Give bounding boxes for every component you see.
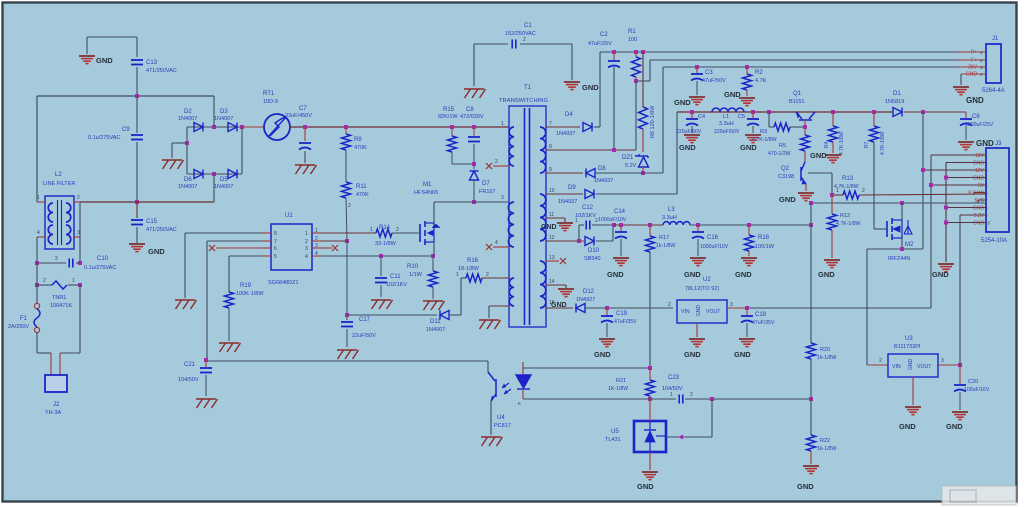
svg-text:U3: U3: [905, 336, 913, 342]
svg-text:K: K: [518, 401, 521, 406]
resistor R14: [376, 229, 392, 237]
svg-text:6: 6: [274, 246, 277, 252]
svg-text:1K-1/8W: 1K-1/8W: [608, 386, 628, 392]
transistor Q1 B1151: [796, 112, 815, 120]
svg-text:C3: C3: [705, 70, 713, 76]
svg-text:L2: L2: [55, 172, 62, 178]
connector J3: [986, 148, 1009, 232]
svg-text:5.2V: 5.2V: [625, 163, 637, 169]
wire R7 to M2 gate: [873, 142, 875, 229]
svg-text:PC817: PC817: [494, 423, 511, 429]
svg-text:2: 2: [690, 392, 693, 398]
svg-text:470-1/2W: 470-1/2W: [768, 151, 791, 157]
svg-text:102/1KV: 102/1KV: [575, 213, 596, 219]
wire U1 pin2: [322, 240, 348, 242]
svg-text:1: 1: [72, 278, 75, 284]
ground below C4: [684, 135, 700, 143]
junction C10 left: [35, 261, 39, 265]
wire R2 stub: [746, 67, 748, 74]
svg-text:TNR1: TNR1: [52, 295, 66, 301]
junction bridge left mid: [185, 141, 189, 145]
wire 3.3V riser: [959, 215, 961, 365]
svg-text:C9: C9: [122, 127, 130, 133]
junction R6 top: [641, 50, 645, 54]
svg-text:1: 1: [370, 227, 373, 233]
winding T1 primary lower: [508, 202, 514, 247]
svg-text:1000uF/10V: 1000uF/10V: [700, 244, 729, 250]
wire R8 to R11: [345, 150, 347, 182]
svg-text:4.7K: 4.7K: [755, 78, 767, 84]
svg-text:D2: D2: [184, 109, 192, 115]
svg-text:2: 2: [305, 239, 308, 245]
svg-text:5264-4A: 5264-4A: [982, 88, 1005, 94]
diode D2: [194, 123, 203, 132]
wire U1 pin4 CS line: [322, 255, 433, 257]
junction R2 tap: [745, 65, 749, 69]
wire C20 drop: [959, 365, 961, 384]
svg-text:J2: J2: [53, 402, 60, 408]
svg-text:GND: GND: [674, 98, 691, 107]
wire L2 pin2 stub: [74, 201, 80, 203]
junction C14 tap: [619, 223, 623, 227]
wire R6 to DZ1: [642, 129, 644, 152]
svg-text:1N4007: 1N4007: [178, 116, 197, 122]
junction C8 tap: [472, 125, 476, 129]
wire to C13: [136, 37, 138, 57]
inductor L3: [663, 222, 690, 225]
svg-text:1: 1: [670, 392, 673, 398]
wire J3 pin6 jog: [973, 193, 975, 196]
svg-text:B111733PI: B111733PI: [894, 344, 921, 350]
wire R21 top: [649, 368, 651, 380]
wire C6 to gnd: [965, 126, 967, 140]
svg-text:2: 2: [668, 302, 671, 308]
wire GND jog top-left: [87, 36, 137, 38]
svg-text:GND: GND: [899, 422, 916, 431]
svg-text:DZ1: DZ1: [622, 155, 634, 161]
wire D7 to drain line: [473, 180, 475, 202]
wire R20 to FB node: [810, 359, 812, 399]
svg-text:GND: GND: [724, 90, 741, 99]
no-connect T1 pin4: [486, 244, 492, 250]
svg-text:100: 100: [628, 37, 637, 43]
junction v931 pin5: [929, 183, 933, 187]
svg-text:1: 1: [575, 218, 578, 224]
wire bridge top: [187, 126, 242, 128]
wire to D7: [473, 164, 475, 169]
svg-text:U5: U5: [611, 429, 619, 435]
svg-text:100/1W: 100/1W: [755, 244, 775, 250]
wire FB column upper: [810, 203, 812, 343]
wire T1 pin8 line: [546, 149, 636, 151]
resistor R5: [801, 135, 810, 151]
svg-text:C20: C20: [968, 379, 978, 385]
junction D11 node: [345, 313, 349, 317]
junction C9/C15 node: [135, 200, 139, 204]
junction TL431 ref: [710, 397, 714, 401]
svg-text:10: 10: [985, 221, 991, 226]
wire R16 to T1 aux: [482, 277, 509, 279]
wire C6 corner: [965, 112, 967, 118]
capacitor C8: [468, 137, 480, 142]
junction gnd col a: [944, 176, 948, 180]
connector J2: [45, 375, 67, 392]
junction R8 tap: [344, 125, 348, 129]
svg-text:GND: GND: [973, 221, 985, 227]
svg-text:D9: D9: [568, 185, 576, 191]
svg-text:220uF/50V: 220uF/50V: [714, 129, 740, 135]
junction R17/R21/LED: [648, 366, 652, 370]
capacitor C15: [131, 220, 143, 225]
wire C4 to gnd: [691, 126, 693, 133]
winding T1 secondary 3: [540, 261, 546, 308]
wire bridge to RT1: [242, 126, 263, 128]
diode D12: [576, 304, 585, 313]
wire D10 out: [596, 240, 613, 242]
wire to R15: [451, 127, 453, 136]
ground below R12: [824, 260, 840, 268]
svg-text:1N4927: 1N4927: [576, 297, 595, 303]
svg-text:-26V: -26V: [966, 65, 977, 71]
wire C18 stub: [746, 308, 748, 315]
wire C21 stub: [205, 360, 207, 367]
svg-text:2: 2: [43, 278, 46, 284]
svg-text:GND: GND: [582, 83, 599, 92]
wire R18 stub: [748, 225, 750, 235]
earth ground opto: [481, 437, 503, 446]
svg-text:10: 10: [549, 188, 555, 194]
ground below C15: [129, 244, 145, 252]
svg-text:GND: GND: [696, 305, 702, 317]
svg-text:D4: D4: [565, 112, 573, 118]
pin 4 U1 right: [312, 255, 322, 257]
ground below C18: [739, 339, 755, 347]
svg-text:220uF/50V: 220uF/50V: [676, 129, 702, 135]
ground T1 pin11: [557, 223, 573, 231]
connector J1: [986, 44, 1001, 83]
wire R15 down: [451, 152, 453, 164]
svg-text:GND: GND: [96, 56, 113, 65]
svg-text:C5: C5: [738, 114, 745, 120]
IC U2 78L12: [677, 300, 727, 323]
svg-text:SB540: SB540: [584, 256, 601, 262]
svg-text:1: 1: [836, 188, 839, 194]
svg-text:GND: GND: [684, 350, 701, 359]
svg-text:GND: GND: [541, 224, 557, 231]
ground J3 gnd column: [938, 264, 954, 272]
svg-text:GND: GND: [148, 247, 165, 256]
varistor TNR1: [52, 281, 67, 289]
transformer T1: [509, 106, 546, 327]
wire R19 to earth: [228, 308, 230, 341]
svg-text:VIN: VIN: [681, 309, 690, 315]
earth ground below C11: [371, 300, 393, 309]
svg-text:D5: D5: [220, 177, 228, 183]
svg-text:GND: GND: [810, 151, 827, 160]
svg-text:3: 3: [315, 243, 318, 249]
svg-text:R10: R10: [407, 264, 419, 270]
junction R15 tap: [450, 125, 454, 129]
junction R17 tap: [648, 223, 652, 227]
svg-text:470K: 470K: [356, 192, 369, 198]
svg-text:4: 4: [305, 254, 308, 260]
earth ground below R19: [219, 343, 241, 352]
pin 2 U1 right: [312, 240, 322, 242]
ground below C14: [613, 258, 629, 266]
svg-text:U1: U1: [285, 213, 293, 219]
diode D7: [470, 171, 479, 180]
junction C18 tap: [745, 306, 749, 310]
svg-text:GND: GND: [684, 270, 701, 279]
svg-text:C21: C21: [184, 362, 196, 368]
junction C21 / FB line: [204, 358, 208, 362]
junction C10 right: [78, 261, 82, 265]
wire U3 out: [938, 364, 960, 366]
earth ground left of C1: [464, 89, 486, 98]
wire D11 line: [348, 314, 437, 316]
svg-text:HFS4N65: HFS4N65: [414, 190, 438, 196]
capacitor C16: [692, 232, 704, 239]
junction sense top: [809, 201, 813, 205]
wire to R8: [345, 127, 347, 134]
wire C13 to bus: [136, 67, 138, 96]
wire D10 segment: [579, 240, 584, 242]
svg-text:Q1: Q1: [793, 91, 802, 97]
svg-text:2: 2: [879, 358, 882, 364]
wire T1 pin7 to D4: [546, 126, 580, 128]
svg-text:C2: C2: [600, 32, 608, 38]
svg-text:3.3uH: 3.3uH: [719, 121, 734, 127]
svg-text:IRFZ44N: IRFZ44N: [888, 256, 910, 262]
diode D10: [585, 237, 594, 246]
wire to C11: [380, 256, 382, 276]
svg-text:GND: GND: [973, 206, 985, 212]
junction R18 tap: [747, 223, 751, 227]
svg-text:C7: C7: [299, 106, 307, 112]
diode D9: [585, 190, 594, 199]
svg-text:3: 3: [501, 195, 504, 201]
wire U1 pin1 to R14: [322, 232, 376, 234]
svg-text:C3198: C3198: [778, 174, 794, 180]
svg-text:M2: M2: [905, 242, 914, 248]
wire C3 stub: [696, 67, 698, 73]
svg-text:47uF/35V: 47uF/35V: [752, 320, 775, 326]
watermark box: [942, 486, 1016, 505]
wire 12V standby line: [747, 307, 931, 309]
wire C3 to gnd: [696, 81, 698, 95]
svg-text:C18: C18: [755, 312, 767, 318]
svg-text:R6 120-1/8W: R6 120-1/8W: [650, 105, 656, 138]
no-connect U1 pin3: [332, 245, 338, 251]
wire J3 pin2: [946, 162, 986, 164]
wire T1 pin10 to D9: [546, 193, 583, 195]
capacitor C14: [615, 232, 627, 239]
svg-text:2: 2: [348, 203, 351, 209]
svg-text:2: 2: [862, 188, 865, 194]
IC U3 B111733PI: [888, 354, 938, 377]
svg-text:F+: F+: [971, 58, 977, 64]
svg-text:4.7K-1/8W: 4.7K-1/8W: [880, 131, 886, 155]
junction R13 / R12: [830, 193, 834, 197]
inductor L1: [712, 108, 744, 112]
junction C3 tap: [695, 65, 699, 69]
svg-text:1000uF/10V: 1000uF/10V: [598, 217, 627, 223]
wire C16 stub: [697, 225, 699, 231]
winding T1 aux: [509, 278, 514, 306]
wire R11 down: [346, 198, 347, 241]
svg-text:R16: R16: [467, 258, 479, 264]
capacitor C12: [586, 221, 590, 230]
capacitor C3: [691, 74, 703, 81]
earth ground below R10: [423, 301, 445, 310]
junction 5V sense: [809, 223, 813, 227]
wire D9 to riser: [596, 193, 677, 195]
wire J3 pin1: [931, 154, 986, 156]
wire opto emitter to earth: [490, 401, 492, 435]
svg-text:47uF/35V: 47uF/35V: [614, 319, 637, 325]
svg-text:R15: R15: [443, 107, 455, 113]
svg-text:1k-1/8W: 1k-1/8W: [656, 243, 675, 249]
svg-text:GND: GND: [740, 143, 757, 152]
svg-text:1N4007: 1N4007: [426, 327, 445, 333]
svg-text:R21: R21: [616, 378, 626, 384]
pin 7 U1 left: [262, 240, 271, 242]
LED U4 side: [516, 375, 531, 389]
wire M2 source line: [867, 248, 923, 250]
ground Q2 emitter: [798, 193, 814, 201]
ground below C16: [690, 258, 706, 266]
no-connect U1 pin6: [209, 245, 215, 251]
svg-text:C8: C8: [466, 107, 474, 113]
no-connect T1 pin2: [486, 163, 492, 169]
ground below C5: [745, 135, 761, 143]
wire T1 pin13 stub: [546, 260, 559, 262]
wire to R10: [432, 256, 434, 271]
svg-text:R12: R12: [840, 213, 850, 219]
svg-text:GND: GND: [973, 161, 985, 167]
wire M2 source: [901, 238, 903, 249]
svg-text:R20: R20: [820, 347, 830, 353]
wire divider to C17: [346, 241, 348, 315]
svg-text:D7: D7: [482, 181, 490, 187]
svg-text:4.7K-1/8W: 4.7K-1/8W: [836, 221, 861, 227]
junction C12 riser: [577, 239, 581, 243]
svg-text:47uF/25V: 47uF/25V: [588, 41, 612, 47]
svg-text:R5: R5: [779, 143, 786, 149]
wire R12 to gnd: [831, 230, 833, 258]
svg-text:D8: D8: [598, 166, 606, 172]
wire R3 riser: [768, 112, 770, 127]
zener DZ1: [635, 154, 649, 167]
winding T1 primary upper: [509, 127, 514, 166]
ground T1 pin14: [558, 289, 574, 297]
svg-text:7: 7: [549, 121, 552, 127]
transistor Q2 C3198: [801, 162, 806, 184]
fuse F1: [34, 303, 39, 308]
svg-text:GND: GND: [946, 422, 963, 431]
capacitor C4: [686, 119, 698, 126]
svg-text:R1: R1: [628, 29, 636, 35]
wire U1 pin7 net: [207, 240, 262, 242]
junction C11 tap: [379, 254, 383, 258]
wire J3 pin5: [931, 184, 986, 186]
wire 12V line: [677, 111, 893, 113]
ground J1 pin4: [953, 87, 969, 95]
svg-text:R17: R17: [659, 235, 669, 241]
svg-text:GND: GND: [607, 270, 624, 279]
wire R10 to earth: [432, 287, 434, 299]
svg-text:RT1: RT1: [263, 91, 275, 97]
svg-text:GND: GND: [735, 270, 752, 279]
svg-text:0.1u/275VAC: 0.1u/275VAC: [84, 265, 116, 271]
earth ground U1 pin8: [175, 300, 197, 309]
svg-text:2: 2: [396, 227, 399, 233]
svg-text:B1151: B1151: [789, 99, 805, 105]
svg-text:470K: 470K: [354, 145, 367, 151]
pin 1 U1 right: [312, 232, 322, 234]
svg-text:2: 2: [495, 159, 498, 165]
svg-text:471/250VAC: 471/250VAC: [146, 227, 177, 233]
wire D4 to +rail: [594, 126, 600, 128]
svg-text:78L12(TO 92): 78L12(TO 92): [685, 286, 719, 292]
svg-text:GND: GND: [966, 96, 984, 105]
junction M2 source: [900, 247, 904, 251]
svg-text:1000uF/25V: 1000uF/25V: [965, 122, 994, 128]
thermistor RT1: [264, 114, 290, 140]
svg-text:13: 13: [549, 255, 555, 261]
wire J3 pin3: [923, 169, 986, 171]
capacitor C11: [375, 278, 387, 283]
svg-text:472/630V: 472/630V: [460, 114, 484, 120]
svg-text:C1: C1: [524, 23, 532, 29]
resistor R8: [342, 134, 351, 150]
svg-text:3: 3: [77, 230, 80, 236]
svg-text:U4: U4: [497, 415, 505, 421]
junction bridge top mid: [212, 125, 216, 129]
wire U2 out: [727, 307, 747, 309]
pin 8 U1 left: [262, 232, 271, 234]
wire C18 to gnd: [746, 323, 748, 337]
wire M1 source: [433, 242, 435, 256]
wire R1 top stub: [635, 52, 637, 57]
svg-text:104/50V: 104/50V: [178, 377, 199, 383]
junction gnd col b: [944, 206, 948, 210]
resistor R22: [807, 435, 816, 451]
diode D4: [583, 123, 592, 132]
diode D5: [228, 170, 237, 179]
wire T1 pin12 line: [546, 240, 579, 242]
junction C5 tap: [751, 110, 755, 114]
wire 5V line b: [690, 224, 811, 226]
capacitor C7: [299, 143, 311, 150]
ground below R18: [741, 258, 757, 266]
wire C14 stub: [620, 225, 622, 231]
wire C17 to earth: [346, 329, 348, 347]
wire AC bus lower: [80, 201, 214, 203]
svg-text:82K/1W: 82K/1W: [438, 114, 458, 120]
svg-text:LINE FILTER: LINE FILTER: [43, 181, 75, 187]
wire R13 line to J3: [832, 194, 843, 196]
svg-text:+12V: +12V: [972, 153, 984, 159]
wire C20 to gnd: [959, 392, 961, 410]
svg-text:152/250VAC: 152/250VAC: [505, 31, 536, 37]
wire C16 to gnd: [697, 239, 699, 256]
svg-text:GND: GND: [976, 139, 994, 148]
wire R4 to gnd: [832, 142, 834, 153]
wire +12V rail to J1 pin1: [600, 51, 986, 53]
wire snubber join: [452, 163, 474, 165]
svg-text:R7: R7: [864, 141, 870, 148]
